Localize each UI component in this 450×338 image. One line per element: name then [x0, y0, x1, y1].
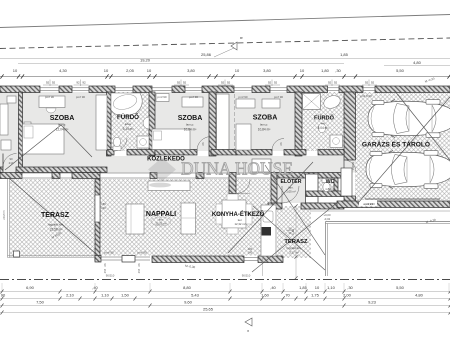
corridor north wall segments	[107, 150, 114, 156]
wall W4 szoba2/closet	[209, 92, 216, 156]
furdo1 corner bath	[111, 93, 142, 116]
wc tile floor	[318, 178, 338, 191]
svg-text:9,60: 9,60	[184, 300, 193, 305]
svg-text:B: B	[246, 330, 250, 332]
terasz1 diagonal	[10, 179, 100, 257]
svg-text:5,43: 5,43	[191, 293, 200, 298]
svg-text:90/210: 90/210	[242, 274, 251, 278]
svg-text:3,80: 3,80	[263, 68, 272, 73]
svg-text:92: 92	[82, 81, 86, 85]
svg-text:pmf 90: pmf 90	[104, 251, 114, 255]
wall W6 szoba3/furdo2	[295, 92, 302, 156]
svg-text:25,65: 25,65	[203, 307, 214, 312]
corridor south wall segments	[0, 173, 22, 179]
szoba1 wardrobe column	[96, 95, 107, 150]
site boundary dashed line	[0, 38, 450, 49]
left room floor	[0, 92, 19, 172]
szoba1 nightstand	[24, 122, 31, 130]
svg-text:5,14 m²: 5,14 m²	[123, 127, 134, 131]
svg-text:10,84 m²: 10,84 m²	[258, 128, 271, 132]
survey marker bottom	[245, 318, 252, 326]
szoba1 floor	[23, 92, 108, 167]
szoba1 roof line a	[5, 125, 61, 170]
svg-text:pmf 90: pmf 90	[157, 95, 167, 99]
svg-text:5,50: 5,50	[396, 285, 405, 290]
kitchen dining table	[222, 200, 246, 228]
svg-text:240/075: 240/075	[2, 210, 6, 220]
south low wall hatched band	[152, 256, 244, 263]
entrance door arc	[282, 186, 299, 203]
eloter diagonal	[265, 165, 325, 255]
south doors glazing	[101, 256, 122, 258]
szoba3 bed	[236, 124, 251, 150]
svg-text:210: 210	[137, 269, 141, 274]
niche column wc/garage	[341, 168, 352, 196]
svg-text:SZOBA: SZOBA	[253, 115, 278, 122]
terasz door opening	[95, 195, 100, 222]
car 1	[368, 100, 450, 138]
svg-text:1,80: 1,80	[321, 68, 330, 73]
svg-text:12,32 m²: 12,32 m²	[234, 222, 245, 226]
svg-text:SZOBA: SZOBA	[178, 115, 203, 122]
survey marker B	[231, 42, 237, 50]
leader line to marker B	[214, 48, 234, 57]
svg-text:240: 240	[101, 206, 106, 210]
left room wardrobe	[7, 96, 16, 103]
svg-text:2,00: 2,00	[343, 293, 352, 298]
furdo1 washing machine	[137, 136, 149, 148]
garage-corridor door arc	[344, 160, 356, 172]
furdo2 washing machine	[330, 135, 343, 148]
svg-text:4,30: 4,30	[59, 68, 68, 73]
wc east wall	[334, 178, 338, 196]
left room nightstand	[1, 140, 11, 150]
furdo2 sink	[322, 93, 342, 110]
nappali west wall	[95, 179, 100, 261]
svg-text:92: 92	[221, 81, 225, 85]
svg-text:1,75: 1,75	[311, 293, 320, 298]
svg-text:92: 92	[177, 81, 181, 85]
exterior north wall piers	[0, 86, 40, 93]
svg-text:92: 92	[365, 81, 369, 85]
svg-text:5,04 m²: 5,04 m²	[318, 126, 329, 130]
kitchen door arc	[236, 180, 250, 194]
svg-text:,40: ,40	[92, 285, 98, 290]
dimension chain line 25,86	[0, 58, 450, 60]
svg-text:2,10: 2,10	[66, 293, 75, 298]
svg-text:SZOBA: SZOBA	[50, 115, 75, 122]
witness lines	[1, 283, 3, 292]
wall W7 lower	[344, 196, 356, 207]
eloter/wc north wall	[277, 173, 344, 179]
terasz2 tile floor	[277, 206, 311, 258]
shaft column eloter/wc	[306, 174, 319, 203]
svg-text:pmf 90: pmf 90	[189, 95, 199, 99]
terasz1 tile floor	[10, 179, 99, 257]
szoba1 desk	[39, 96, 65, 108]
svg-text:pmf 90: pmf 90	[33, 168, 42, 172]
furdo1 tile floor	[111, 92, 149, 151]
svg-text:6,90: 6,90	[26, 285, 35, 290]
szoba1 roof line b	[61, 125, 92, 157]
svg-text:lam.p.: lam.p.	[260, 123, 268, 127]
svg-text:,30: ,30	[347, 285, 353, 290]
eloter west wall	[271, 173, 277, 210]
wc toilet	[322, 179, 331, 183]
closet wardrobe column	[217, 94, 230, 150]
svg-text:pmf 9,20: pmf 9,20	[360, 94, 372, 98]
svg-text:180: 180	[248, 247, 253, 251]
svg-text:,30: ,30	[335, 68, 341, 73]
furdo1 sink	[143, 117, 149, 129]
svg-text:lam.p.: lam.p.	[58, 123, 66, 127]
corridor floor	[107, 156, 355, 173]
furdo2 tile floor	[302, 92, 344, 151]
svg-text:FÜRDŐ: FÜRDŐ	[117, 114, 139, 121]
svg-text:12,04 m²: 12,04 m²	[56, 128, 69, 132]
long dash-dot line	[0, 279, 450, 281]
svg-text:92: 92	[268, 81, 272, 85]
svg-text:92: 92	[227, 81, 231, 85]
szoba1 bed	[23, 124, 65, 154]
north windows glazing	[40, 87, 59, 89]
svg-text:1,85: 1,85	[299, 285, 308, 290]
svg-text:92: 92	[334, 81, 338, 85]
svg-text:pmf 90: pmf 90	[137, 251, 147, 255]
svg-text:92: 92	[183, 81, 187, 85]
svg-text:92: 92	[328, 81, 332, 85]
kitchen-eloter diagonal	[228, 162, 313, 253]
svg-text:10: 10	[235, 68, 240, 73]
svg-text:fagyálló ker.: fagyálló ker.	[48, 223, 64, 227]
corridor south openings (lintels)	[22, 172, 52, 174]
szoba3 floor	[216, 92, 295, 151]
svg-text:210: 210	[9, 161, 14, 165]
svg-text:10: 10	[13, 68, 18, 73]
svg-text:DUNA HOUSE: DUNA HOUSE	[181, 159, 293, 179]
svg-text:92: 92	[76, 81, 80, 85]
svg-text:9,23: 9,23	[368, 300, 377, 305]
svg-text:25,25 m²: 25,25 m²	[155, 222, 166, 226]
wall W2 szoba1/furdo1	[107, 92, 112, 156]
nappali sofa left	[126, 204, 144, 234]
watermark logo	[148, 158, 176, 188]
svg-text:92: 92	[46, 81, 50, 85]
stove	[262, 227, 272, 236]
eloter floor	[277, 178, 306, 203]
svg-text:25,86: 25,86	[201, 52, 212, 57]
dimension chain line 19,20	[18, 63, 344, 65]
terasz corner post	[14, 251, 20, 257]
szoba3 wardrobe b	[262, 99, 280, 108]
svg-text:WC: WC	[326, 179, 335, 185]
svg-text:TERASZ: TERASZ	[41, 212, 70, 219]
svg-text:10: 10	[315, 285, 320, 290]
eloter south wall right	[301, 203, 344, 209]
svg-text:1,10: 1,10	[327, 285, 336, 290]
kitchen sink	[263, 211, 273, 222]
hall closet box	[252, 159, 271, 172]
szoba2 floor	[155, 92, 209, 151]
svg-text:,70: ,70	[284, 293, 290, 298]
svg-text:1,10: 1,10	[101, 293, 110, 298]
svg-text:fagyálló ker.: fagyálló ker.	[287, 246, 302, 250]
svg-text:1,85: 1,85	[340, 52, 349, 57]
nappali sofa right	[181, 203, 196, 234]
szoba1 south wall	[0, 167, 3, 173]
svg-text:1,60: 1,60	[261, 293, 270, 298]
car 2	[366, 151, 450, 189]
furdo2 shower	[303, 94, 321, 110]
szoba3 wardrobe a	[236, 99, 255, 108]
south door white pier	[122, 256, 135, 263]
svg-text:23,58 m²: 23,58 m²	[50, 228, 63, 232]
svg-text:240: 240	[248, 251, 253, 255]
svg-text:8,80: 8,80	[183, 285, 192, 290]
svg-text:pm 9,20: pm 9,20	[365, 202, 375, 206]
south wall corner pier	[95, 256, 101, 263]
szoba1 chair	[46, 108, 56, 113]
svg-text:4,80: 4,80	[413, 60, 422, 65]
svg-text:1,05 m²: 1,05 m²	[286, 190, 296, 194]
kitchen counter	[261, 205, 276, 256]
svg-text:-0,02: -0,02	[324, 217, 331, 221]
svg-text:1,50: 1,50	[121, 293, 130, 298]
svg-text:1,84 m²: 1,84 m²	[325, 187, 335, 191]
svg-text:pmf 90: pmf 90	[274, 95, 284, 99]
terasz2 sliding door	[244, 257, 258, 259]
svg-text:,40: ,40	[270, 285, 276, 290]
svg-text:10,84 m²: 10,84 m²	[184, 128, 197, 132]
svg-text:92: 92	[274, 81, 278, 85]
szoba2 bed	[152, 129, 190, 150]
svg-text:7,50: 7,50	[36, 300, 45, 305]
svg-text:kő: kő	[321, 122, 325, 126]
svg-text:FÜRDŐ: FÜRDŐ	[314, 115, 335, 122]
furdo2 wc	[318, 123, 325, 133]
terasz2 X diagonal b	[253, 206, 325, 270]
svg-text:10: 10	[104, 68, 109, 73]
wall W3 furdo1/szoba2	[149, 92, 155, 156]
szoba3 door arc	[272, 139, 284, 151]
svg-text:92: 92	[52, 81, 56, 85]
left room bed	[0, 104, 8, 135]
right vertical dimension line	[295, 206, 297, 278]
nappali & konyha tile floor	[100, 179, 271, 256]
svg-text:3,80: 3,80	[187, 68, 196, 73]
szoba2 door arc	[197, 137, 211, 151]
svg-text:19,20: 19,20	[140, 58, 151, 63]
kitchen outer vertical line	[262, 209, 264, 276]
garage diagonal 2	[358, 97, 450, 203]
wall W1 left-room/szoba1	[19, 92, 23, 173]
svg-text:GARÁZS ÉS TÁROLÓ: GARÁZS ÉS TÁROLÓ	[362, 140, 430, 149]
garage tile floor	[355, 92, 450, 200]
svg-text:pmf 90: pmf 90	[45, 95, 55, 99]
svg-text:2,05: 2,05	[126, 68, 135, 73]
apron corner lines	[326, 221, 450, 223]
garage outer edge line	[310, 210, 450, 212]
svg-text:4,80: 4,80	[415, 293, 424, 298]
eloter south wall left	[268, 203, 282, 209]
bottom ticks	[1, 290, 4, 294]
furdo1 wc	[113, 146, 121, 151]
top main dimension line with ticks	[0, 76, 450, 78]
svg-text:pmf 90: pmf 90	[238, 95, 248, 99]
svg-text:pmf 90: pmf 90	[76, 95, 86, 99]
garage door leaf	[365, 198, 440, 200]
svg-text:90/210: 90/210	[106, 274, 115, 278]
svg-text:10: 10	[147, 68, 152, 73]
svg-text:5,50: 5,50	[396, 68, 405, 73]
left room door arc	[3, 154, 17, 168]
szoba2 wardrobe	[182, 97, 203, 107]
garage south wall	[337, 201, 450, 208]
wc south wall	[306, 191, 344, 197]
kitchen west wall	[229, 173, 236, 194]
site boundary solid line	[0, 15, 450, 28]
sideboard nappali	[148, 181, 190, 191]
svg-text:10: 10	[300, 68, 305, 73]
svg-text:3,17 m²: 3,17 m²	[289, 251, 299, 255]
svg-text:92: 92	[371, 81, 375, 85]
svg-text:1,44: 1,44	[291, 229, 295, 235]
terasz2 X diagonal a	[252, 202, 338, 272]
section dashed line	[234, 94, 236, 150]
svg-text:kőve: kőve	[125, 122, 132, 126]
garage diagonal 1	[394, 90, 450, 160]
szoba2 nightstand	[156, 94, 169, 102]
svg-text:lam.p.: lam.p.	[186, 123, 194, 127]
svg-text:KONYHA-ÉTKEZŐ: KONYHA-ÉTKEZŐ	[212, 210, 265, 218]
furdo1 door arc	[114, 138, 127, 151]
wall W7 furdo2/garage upper	[344, 92, 356, 160]
